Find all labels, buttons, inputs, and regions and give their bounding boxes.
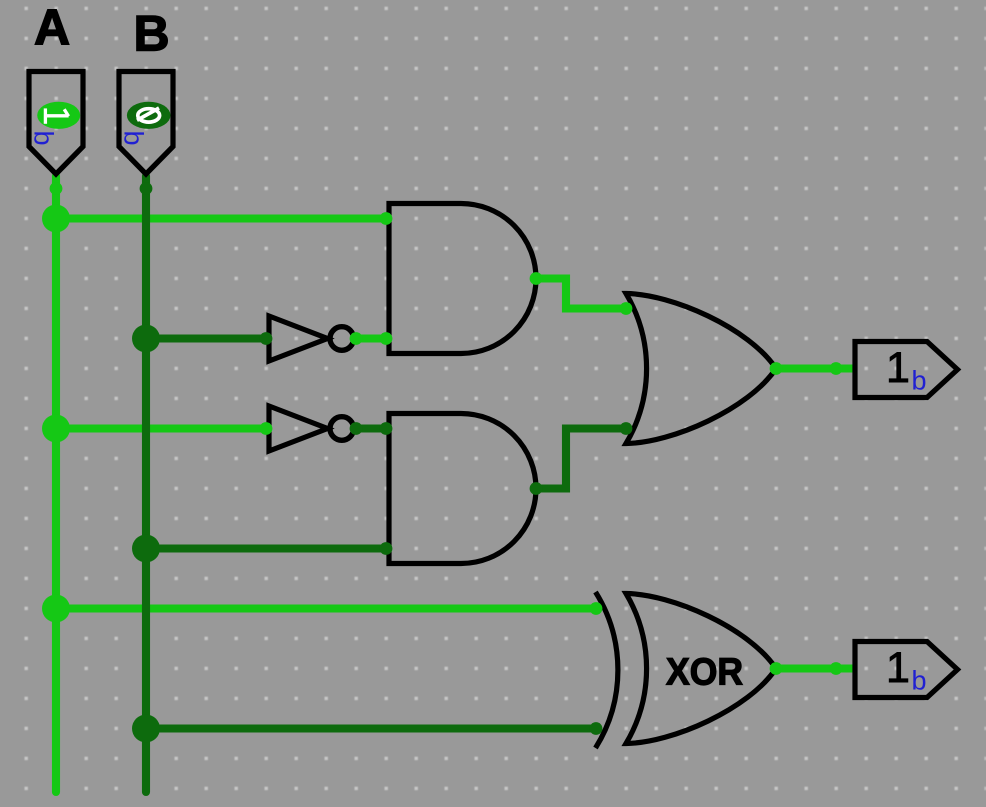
svg-text:b: b: [119, 131, 149, 146]
node: NOT U3 output: [350, 332, 363, 345]
XOR gate U6 body: [626, 594, 776, 744]
AND gate U1: [389, 204, 536, 354]
node: pin A port: [50, 182, 63, 195]
wire A vertical: [52, 176, 60, 792]
node: OR U5 input 1: [620, 302, 633, 315]
node: wire joint S: [830, 362, 843, 375]
node: NOT U4 input: [260, 422, 273, 435]
wire end dots net A: [42, 182, 842, 675]
node: AND U1 input 1: [380, 212, 393, 225]
input pin A value digit 1 (rotated): [45, 108, 68, 123]
wire end dots net B: [132, 182, 632, 742]
input pin B value oval (0): [127, 102, 171, 129]
svg-text:b: b: [29, 131, 59, 146]
node: XOR U6 input 2: [590, 722, 603, 735]
input pin A value oval (1): [37, 102, 80, 129]
node: NOT U4 output: [350, 422, 363, 435]
wire AND1 output to OR top input: [536, 279, 626, 309]
node: OR U5 input 2: [620, 422, 633, 435]
wire A row7 to AND1 top input: [56, 214, 386, 222]
node: XOR U6 output: [770, 662, 783, 675]
junction B row24: [132, 715, 160, 743]
OR gate U5: [626, 294, 776, 444]
svg-text:B: B: [133, 6, 169, 62]
wire B row24 to XOR lower input: [146, 724, 596, 732]
input pin A body: [29, 72, 83, 175]
XOR gate U6 extra input arc: [596, 592, 618, 748]
svg-text:b: b: [912, 366, 927, 396]
node: XOR U6 input 1: [590, 602, 603, 615]
node: pin B port: [140, 182, 153, 195]
wire OR output to output pin S: [776, 364, 853, 372]
node: AND U1 output: [530, 272, 543, 285]
input pin B body: [119, 72, 173, 175]
NOT gate U3 bubble: [330, 327, 354, 351]
junction A row14: [42, 415, 70, 443]
wire B vertical: [142, 176, 150, 792]
junction B row18: [132, 535, 160, 563]
wire net A (high, bright green): [56, 176, 853, 792]
wire AND2 output to OR lower input: [536, 429, 626, 489]
junction A row7: [42, 205, 70, 233]
svg-text:b: b: [912, 666, 927, 696]
NOT gate U4 triangle: [269, 406, 328, 451]
svg-text:1: 1: [886, 644, 910, 692]
wire A row14 to NOT2 input: [56, 424, 266, 432]
node: NOT U3 input: [260, 332, 273, 345]
wire NOT2 output to AND2 top input: [356, 424, 386, 432]
wire A row20 to XOR top input: [56, 604, 596, 612]
NOT gate U4 bubble: [330, 417, 354, 441]
junction B row11: [132, 325, 160, 353]
output pin S body: [855, 342, 958, 398]
node: AND U2 input 2: [380, 542, 393, 555]
node: OR U5 output: [770, 362, 783, 375]
node: AND U2 input 1: [380, 422, 393, 435]
node: wire joint X: [830, 662, 843, 675]
input pin B value digit 0-slash (rotated): [137, 108, 160, 122]
wire B row11 to NOT1 input: [146, 334, 266, 342]
output pin X body: [855, 642, 958, 698]
wire net B (low, dark green): [146, 176, 626, 792]
svg-text:XOR: XOR: [666, 652, 743, 694]
junction A row20: [42, 595, 70, 623]
wire B row18 to AND2 lower input: [146, 544, 386, 552]
svg-text:A: A: [34, 0, 70, 56]
AND gate U2: [389, 414, 536, 564]
wire NOT1 output to AND1 lower input: [356, 334, 386, 342]
node: AND U1 input 2: [380, 332, 393, 345]
wire XOR output to output pin X: [776, 664, 853, 672]
svg-text:1: 1: [886, 344, 910, 392]
NOT gate U3 triangle: [269, 316, 328, 361]
node: AND U2 output: [530, 482, 543, 495]
